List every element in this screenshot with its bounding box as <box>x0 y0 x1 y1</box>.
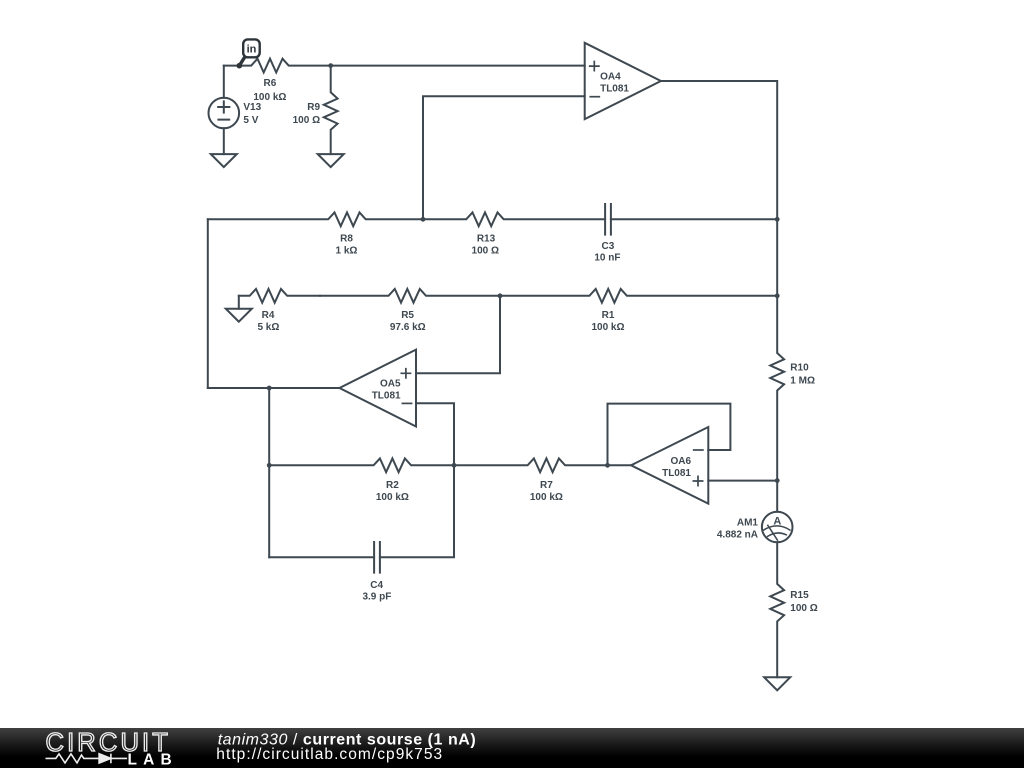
ground below R9 <box>318 154 344 167</box>
wire C4 branch <box>269 465 454 557</box>
ground stub at R4 <box>238 296 240 309</box>
resistor R10 <box>770 296 784 481</box>
junction R8-R13 node <box>421 217 426 222</box>
wire R9 junction to OA4 + input <box>331 65 585 67</box>
junction C3-rail node <box>775 217 780 222</box>
ground bottom right <box>764 677 790 690</box>
ground below V13 <box>211 154 237 167</box>
junction R2 left node <box>267 463 272 468</box>
op-amp OA6 <box>631 427 708 504</box>
wire R7 junction to OA6 output <box>608 464 632 466</box>
junction R6-R9 node <box>328 63 333 68</box>
junction OA5 output node <box>267 386 272 391</box>
left rail wire <box>207 219 209 388</box>
vertical wire from OA5 output junction down <box>268 388 270 557</box>
resistor R2 <box>269 458 454 472</box>
resistor R4 <box>239 289 320 303</box>
op-amp OA4 <box>585 43 661 119</box>
junction R1-rail node <box>775 293 780 298</box>
junction R7-OA6 node <box>605 463 610 468</box>
junction OA6-rail node <box>775 478 780 483</box>
resistor R15 <box>770 542 784 677</box>
wire OA4 output to right rail <box>661 81 777 296</box>
resistor R1 <box>500 289 777 303</box>
ammeter AM1 <box>762 512 793 543</box>
svg-text:LAB: LAB <box>128 751 178 768</box>
ground at R4 <box>226 309 252 322</box>
resistor R5 <box>320 289 500 303</box>
node flag in <box>237 39 260 68</box>
capacitor C4 <box>374 542 380 573</box>
wire OA5 output to left rail <box>208 387 340 389</box>
CircuitLab logo resistor-diode motif <box>46 754 128 764</box>
capacitor C3 <box>605 204 611 235</box>
resistor R13 <box>423 212 605 226</box>
resistor R9 <box>324 66 338 155</box>
resistor R6 <box>224 59 331 73</box>
resistor R7 <box>454 458 608 472</box>
wire OA6 + input to right rail <box>708 480 777 482</box>
feedback wire OA6 <box>608 404 731 466</box>
wire C3 to right rail <box>611 218 777 220</box>
wire rail to ammeter <box>776 481 778 512</box>
junction R5-R1 node <box>498 293 503 298</box>
wire OA5 - input down to R2/R7 junction <box>416 403 454 465</box>
wire OA5 + input up to R5/R1 junction <box>416 296 500 374</box>
footer bar <box>0 728 1024 768</box>
voltage source V13 <box>209 66 240 155</box>
resistor R8 <box>208 212 423 226</box>
wire OA4 inverting input down to row1 <box>423 96 585 219</box>
junction R2-R7 node <box>452 463 457 468</box>
op-amp OA5 <box>340 350 417 427</box>
svg-text:http://circuitlab.com/cp9k753: http://circuitlab.com/cp9k753 <box>216 746 443 763</box>
